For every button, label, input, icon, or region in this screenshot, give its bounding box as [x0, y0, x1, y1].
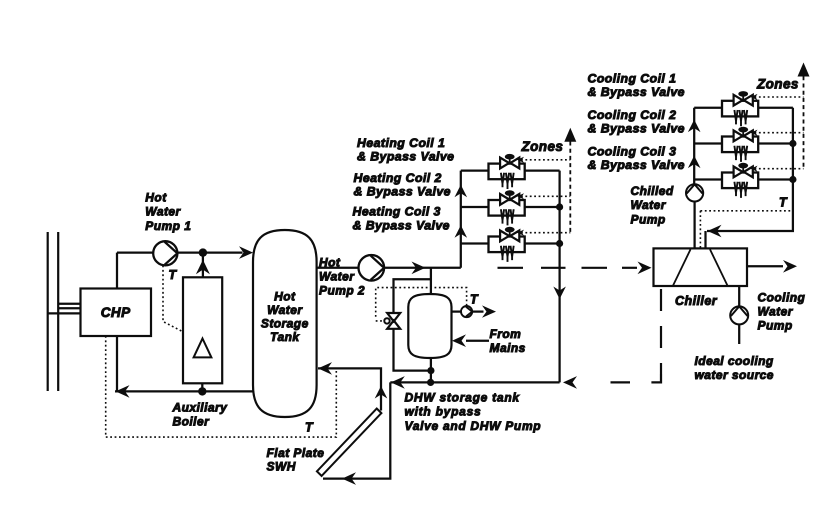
CHP unit box [81, 289, 152, 337]
arrow down heating return [553, 287, 566, 300]
svg-text:Flat Plate: Flat Plate [267, 446, 325, 460]
arrow from mains into tank [452, 334, 466, 347]
cooling return wire [707, 108, 793, 231]
arrow up from collector [375, 386, 388, 399]
ctrl arrow cooling valve 2 [751, 130, 758, 136]
arrow cooling return to chiller [708, 225, 722, 238]
dotted control line DHW T to valve [376, 288, 467, 321]
svg-text:Cooling Coil 2: Cooling Coil 2 [588, 108, 677, 122]
arrow on supply main [412, 262, 426, 275]
svg-text:Cooling Coil 3: Cooling Coil 3 [588, 145, 677, 159]
arrow DHW draw [482, 305, 496, 317]
svg-text:CHP: CHP [101, 305, 131, 320]
svg-text:& Bypass Valve: & Bypass Valve [588, 85, 685, 99]
dotted chiller control line with T [700, 211, 793, 249]
junction DHW bypass bottom [427, 367, 434, 374]
riser arrow 1 [455, 185, 468, 198]
wire down to collector inlet [323, 382, 390, 478]
svg-text:Valve and DHW Pump: Valve and DHW Pump [405, 419, 542, 433]
svg-text:Hot: Hot [145, 191, 167, 205]
cooling coil outlet pipes [758, 108, 793, 180]
hot water pump 1 symbol [153, 241, 177, 265]
ctrl arrow valve 2 [517, 193, 524, 199]
zones arrow (heating) [564, 128, 576, 142]
svg-text:T: T [305, 421, 314, 435]
svg-text:Heating Coil 2: Heating Coil 2 [354, 171, 442, 185]
svg-text:Hot: Hot [274, 290, 296, 304]
svg-text:Chiller: Chiller [675, 294, 718, 308]
heating coil 2 coil fins [501, 209, 514, 225]
from-mains wire [466, 340, 489, 342]
svg-text:Pump: Pump [631, 212, 666, 226]
dashed zones signal line (cooling) [803, 76, 805, 168]
wire pump to chiller [693, 202, 695, 249]
svg-text:Heating Coil 3: Heating Coil 3 [353, 204, 441, 218]
ctrl arrow valve 3 [517, 230, 524, 236]
svg-text:with bypass: with bypass [405, 405, 482, 419]
wire pump 1 to storage tank [177, 251, 242, 253]
chilled riser arrow 2 [688, 156, 701, 169]
DHW pump symbol [461, 306, 472, 317]
svg-text:Cooling: Cooling [758, 291, 806, 305]
junction node above boiler [199, 248, 207, 256]
svg-text:Ideal cooling: Ideal cooling [695, 354, 774, 368]
cooling coil 2 coil fins [734, 146, 747, 162]
svg-text:Cooling Coil 1: Cooling Coil 1 [588, 72, 677, 86]
svg-text:T: T [169, 268, 178, 282]
wire collector top stub [380, 399, 382, 411]
zones arrow (cooling) [798, 63, 810, 77]
DHW storage tank [408, 294, 451, 358]
wire CHP bottom to return [116, 336, 118, 391]
svg-text:Pump: Pump [758, 319, 793, 333]
wire cooling water pump to source [738, 324, 740, 344]
svg-text:Water: Water [631, 198, 667, 212]
cooling coil 2 coil box [722, 137, 758, 153]
arrow up from boiler [196, 260, 210, 275]
arrow dashed return into junction [563, 376, 577, 389]
heating coil 3 3-way bypass valve [500, 227, 519, 242]
junction cooling return 2 [789, 176, 796, 183]
ctrl arrow cooling valve 3 [751, 166, 758, 172]
solid return line to solar [390, 381, 559, 383]
svg-text:T: T [779, 196, 788, 210]
cooling coil 3 coil fins [734, 182, 747, 198]
heating return riser [558, 171, 560, 383]
bus-CHP connector wires [48, 304, 81, 314]
hot water pump 2 symbol [359, 255, 385, 281]
cooling water pump symbol [730, 306, 748, 324]
arrow into collector bottom [342, 472, 356, 485]
arrow into CHP return [116, 385, 130, 398]
cooling coil 1 3-way bypass valve [734, 91, 753, 106]
heating coil 3 coil box [489, 237, 525, 253]
svg-text:Mains: Mains [490, 341, 526, 355]
junction heating return 1 [556, 203, 563, 210]
dashed supply main to chiller [498, 267, 638, 269]
svg-text:T: T [470, 293, 479, 307]
chiller outlet wire [747, 265, 783, 267]
wire collector outlet to tank [318, 368, 381, 399]
arrow chiller outlet [783, 260, 797, 273]
svg-text:& Bypass Valve: & Bypass Valve [588, 158, 685, 172]
boiler burner triangle [194, 339, 212, 358]
wire DHW pump out [472, 310, 483, 312]
arrow into chiller left [638, 262, 652, 275]
wire supply to DHW tank top [430, 268, 432, 294]
wire chiller to cooling water pump [738, 286, 740, 307]
heating coil 3 coil fins [501, 246, 514, 262]
arrow return toward solar loop [391, 376, 405, 389]
svg-text:Water: Water [758, 305, 794, 319]
cooling coil 3 3-way bypass valve [734, 163, 753, 178]
dashed zones signal line (heating) [569, 142, 571, 233]
hot water storage tank [253, 230, 317, 417]
junction heating return 2 [556, 240, 563, 247]
svg-text:& Bypass Valve: & Bypass Valve [588, 121, 685, 135]
svg-text:Zones: Zones [521, 139, 564, 154]
cooling coil 3 coil box [722, 173, 758, 189]
svg-text:Water: Water [145, 205, 181, 219]
wire supply header to pump 1 [117, 251, 153, 253]
svg-text:From: From [490, 327, 522, 341]
cooling coil inlet stubs [694, 108, 722, 180]
svg-text:Tank: Tank [270, 330, 300, 344]
svg-text:Heating Coil 1: Heating Coil 1 [357, 136, 445, 150]
wire junction down to boiler [202, 253, 204, 278]
svg-text:Water: Water [267, 303, 303, 317]
heating coil 2 coil box [489, 200, 525, 216]
heating coil 1 coil box [489, 164, 525, 180]
chiller box [654, 248, 748, 286]
cooling coil 1 coil box [722, 101, 758, 117]
wire return into chiller top [704, 231, 706, 248]
arrow into tank from solar [318, 362, 332, 375]
svg-text:water source: water source [695, 368, 774, 382]
svg-text:Auxiliary: Auxiliary [172, 401, 229, 415]
dotted control line CHP to solar sensor [106, 336, 337, 437]
svg-text:Chilled: Chilled [631, 184, 674, 198]
chiller internal diagonals [673, 249, 728, 285]
wire DHW tank bottom to return [430, 358, 432, 382]
svg-text:DHW storage tank: DHW storage tank [405, 391, 521, 405]
DHW bypass wire [394, 279, 431, 370]
heating supply riser [460, 171, 462, 268]
auxiliary boiler box [183, 277, 222, 383]
svg-text:& Bypass Valve: & Bypass Valve [353, 219, 450, 233]
svg-text:Zones: Zones [756, 77, 799, 92]
ctrl arrow valve 1 [517, 157, 524, 163]
heating coil inlet stubs [461, 171, 489, 244]
cooling coil 2 3-way bypass valve [734, 127, 753, 142]
wire tank to pump 2 [317, 267, 359, 269]
flat plate solar collector [317, 409, 382, 476]
junction DHW on return line [427, 379, 434, 386]
riser arrow 2 [455, 225, 468, 238]
chilled water pump symbol [686, 184, 703, 201]
svg-text:Storage: Storage [261, 317, 309, 331]
svg-text:Water: Water [319, 269, 355, 283]
dashed chiller return horizontal [611, 374, 662, 382]
return wire tank to CHP [115, 390, 255, 392]
svg-text:SWH: SWH [267, 460, 296, 474]
svg-text:Boiler: Boiler [173, 415, 211, 429]
chilled riser arrow 1 [688, 120, 701, 133]
junction cooling return 1 [789, 140, 796, 147]
dotted valve control lines to zones (cooling) [755, 97, 804, 169]
heating coil outlet pipes [525, 171, 560, 244]
svg-text:& Bypass Valve: & Bypass Valve [354, 184, 451, 198]
junction node below boiler [198, 387, 206, 395]
wire boiler bottom [201, 383, 203, 391]
arrow into tank left port [239, 246, 253, 259]
heating coil 1 3-way bypass valve [500, 154, 519, 169]
ctrl arrow cooling valve 1 [751, 94, 758, 100]
wire DHW tank to DHW pump [452, 310, 462, 312]
svg-text:Hot: Hot [319, 255, 341, 269]
dotted valve control lines to zones [521, 160, 570, 233]
dotted control line pump T to boiler [163, 266, 183, 332]
chilled supply riser [693, 108, 695, 185]
DHW bypass valve [384, 313, 400, 329]
svg-text:& Bypass Valve: & Bypass Valve [357, 150, 454, 164]
heating coil 1 coil fins [501, 173, 514, 189]
heating coil 2 3-way bypass valve [500, 190, 519, 205]
grid bus line 1 [47, 232, 49, 391]
cooling coil 1 coil fins [734, 110, 747, 126]
dashed chiller return vertical [660, 289, 662, 374]
svg-text:Pump 2: Pump 2 [319, 284, 365, 298]
wire CHP top to supply header [116, 253, 118, 289]
supply main pump 2 to coils [384, 267, 461, 269]
grid bus line 2 [57, 232, 59, 391]
svg-text:Pump 1: Pump 1 [145, 219, 191, 233]
